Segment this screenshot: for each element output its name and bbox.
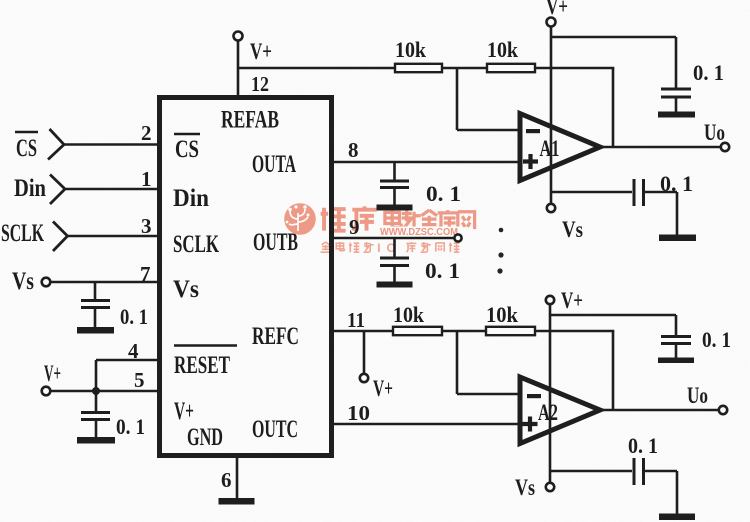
wire pin 8 OUTA to A1 plus input xyxy=(334,161,520,164)
ground bar C1 xyxy=(658,112,695,118)
wire branch pin 11 down to V+ terminal xyxy=(363,331,366,374)
resistor R3 10k xyxy=(393,327,442,335)
wire A2 output to Uo xyxy=(600,409,719,412)
label CS left with overline xyxy=(15,131,38,133)
ground bar C3 xyxy=(377,282,413,288)
wire A1 supply vertical xyxy=(550,27,553,205)
wire node R3 R4 down xyxy=(456,331,459,394)
capacitor C1 0.1 plates xyxy=(661,89,691,97)
wire V+ terminal to pin 12 xyxy=(237,41,240,96)
watermark characters 电子市场网 xyxy=(385,210,475,230)
terminal V+ left xyxy=(42,387,51,396)
capacitor C4 0.1 series plates xyxy=(634,179,644,206)
V+ supply terminal A1 xyxy=(547,18,556,27)
wire node between R1 R2 down xyxy=(456,68,459,130)
wire to A1 inverting input xyxy=(457,129,520,132)
wire Vs to pin 7 xyxy=(50,281,157,284)
wire to A2 inverting input xyxy=(457,393,520,396)
V+ terminal top of IC pin 12 xyxy=(234,32,243,41)
wire pin 4 RESET jog xyxy=(96,360,157,391)
wire pin 10 OUTC to A2 plus input xyxy=(334,423,520,426)
wire R2 to feedback corner xyxy=(535,67,614,70)
wire V+ rail to R1 xyxy=(238,67,395,70)
capacitor C2 0.1 on OUTA lead xyxy=(393,162,396,181)
wire CS to pin 2 xyxy=(64,143,157,146)
resistor R4 10k xyxy=(486,327,535,335)
wire A1 output to Uo xyxy=(600,146,721,149)
watermark slogan row xyxy=(321,242,374,252)
left chevron SCLK input xyxy=(53,222,68,252)
terminal Vs A2 xyxy=(546,483,554,491)
V+ supply terminal A2 xyxy=(546,296,554,304)
wire C8 to ground xyxy=(645,471,677,514)
wire Din to pin 1 xyxy=(65,188,157,191)
capacitor C6 plates xyxy=(81,413,110,420)
op-amp A2 xyxy=(520,377,600,444)
wire R4 to feedback corner A2 xyxy=(535,330,614,333)
terminal Uo A1 xyxy=(721,143,729,151)
A2 plus sign xyxy=(523,417,538,432)
wire feedback vertical to A2 output xyxy=(612,331,615,410)
wire pin 11 REFC to R3 xyxy=(334,330,393,333)
resistor R1 10k xyxy=(395,64,442,72)
ground bar pin 6 xyxy=(219,498,255,505)
wire C6 to ground xyxy=(95,420,98,438)
capacitor C5 0.1 on Vs xyxy=(94,282,97,301)
capacitor C5 plates xyxy=(81,301,110,308)
wire A1 Vs branch to coupling cap xyxy=(551,191,632,194)
terminal Vs A1 xyxy=(547,204,555,212)
junction dot V+ node xyxy=(92,387,100,395)
op-amp A1 xyxy=(520,114,600,181)
A1 plus sign xyxy=(523,154,538,169)
wire C3 to ground xyxy=(393,266,396,283)
wire A2 Vs branch to coupling cap xyxy=(550,470,632,473)
capacitor C3 0.1 on OUTB lead xyxy=(393,238,396,258)
capacitor C6 0.1 on V+ xyxy=(95,391,98,413)
terminal Vs left xyxy=(42,278,51,287)
wire V+ branch to decoupling cap xyxy=(551,37,676,89)
A1 minus sign xyxy=(526,129,540,133)
wire C2 to ground xyxy=(393,188,396,206)
terminal Uo A2 xyxy=(719,406,727,414)
wire A2 supply vertical xyxy=(549,304,552,483)
watermark logo circle dzsc xyxy=(284,203,316,235)
pin label RESET inside with overline xyxy=(174,344,237,347)
terminal V+ mid xyxy=(360,374,368,382)
wire V+ branch to decoupling cap A2 xyxy=(550,315,676,337)
wire R1 to R2 xyxy=(442,67,487,70)
wire R3 to R4 xyxy=(442,330,486,333)
pin label CS inside with overline xyxy=(174,133,200,136)
terminal OUTB xyxy=(454,234,461,241)
IC U1 REFAB body xyxy=(160,98,332,456)
watermark big characters 维库 xyxy=(321,206,377,230)
wire C1 to ground xyxy=(675,97,678,112)
ellipsis dots xyxy=(497,228,503,274)
wire V+ to pin 5 xyxy=(50,390,157,393)
ground bar C7 xyxy=(658,358,694,364)
wire feedback vertical to A1 output xyxy=(612,68,615,147)
resistor R2 10k xyxy=(487,64,535,72)
ground bar C5 xyxy=(77,327,114,334)
capacitor C2 plates xyxy=(380,181,409,188)
capacitor C7 0.1 plates xyxy=(661,337,691,344)
A2 minus sign xyxy=(527,394,541,398)
wire pin 9 OUTB xyxy=(334,237,455,240)
wire C5 to ground xyxy=(94,308,97,328)
ground bar C2 xyxy=(377,205,413,211)
capacitor C8 0.1 series plates xyxy=(634,458,644,485)
ground bar C4 xyxy=(659,235,696,242)
watermark url band xyxy=(377,227,461,238)
wire C4 to ground xyxy=(645,192,677,235)
wire SCLK to pin 3 xyxy=(68,235,158,238)
left chevron Din input xyxy=(50,175,65,205)
wire pin 6 GND xyxy=(236,458,239,499)
left chevron CS input xyxy=(48,129,64,160)
capacitor C3 plates xyxy=(380,258,409,266)
wire C7 to ground xyxy=(675,344,678,358)
ground bar C6 xyxy=(77,437,115,444)
ground bar C8 xyxy=(659,514,695,521)
